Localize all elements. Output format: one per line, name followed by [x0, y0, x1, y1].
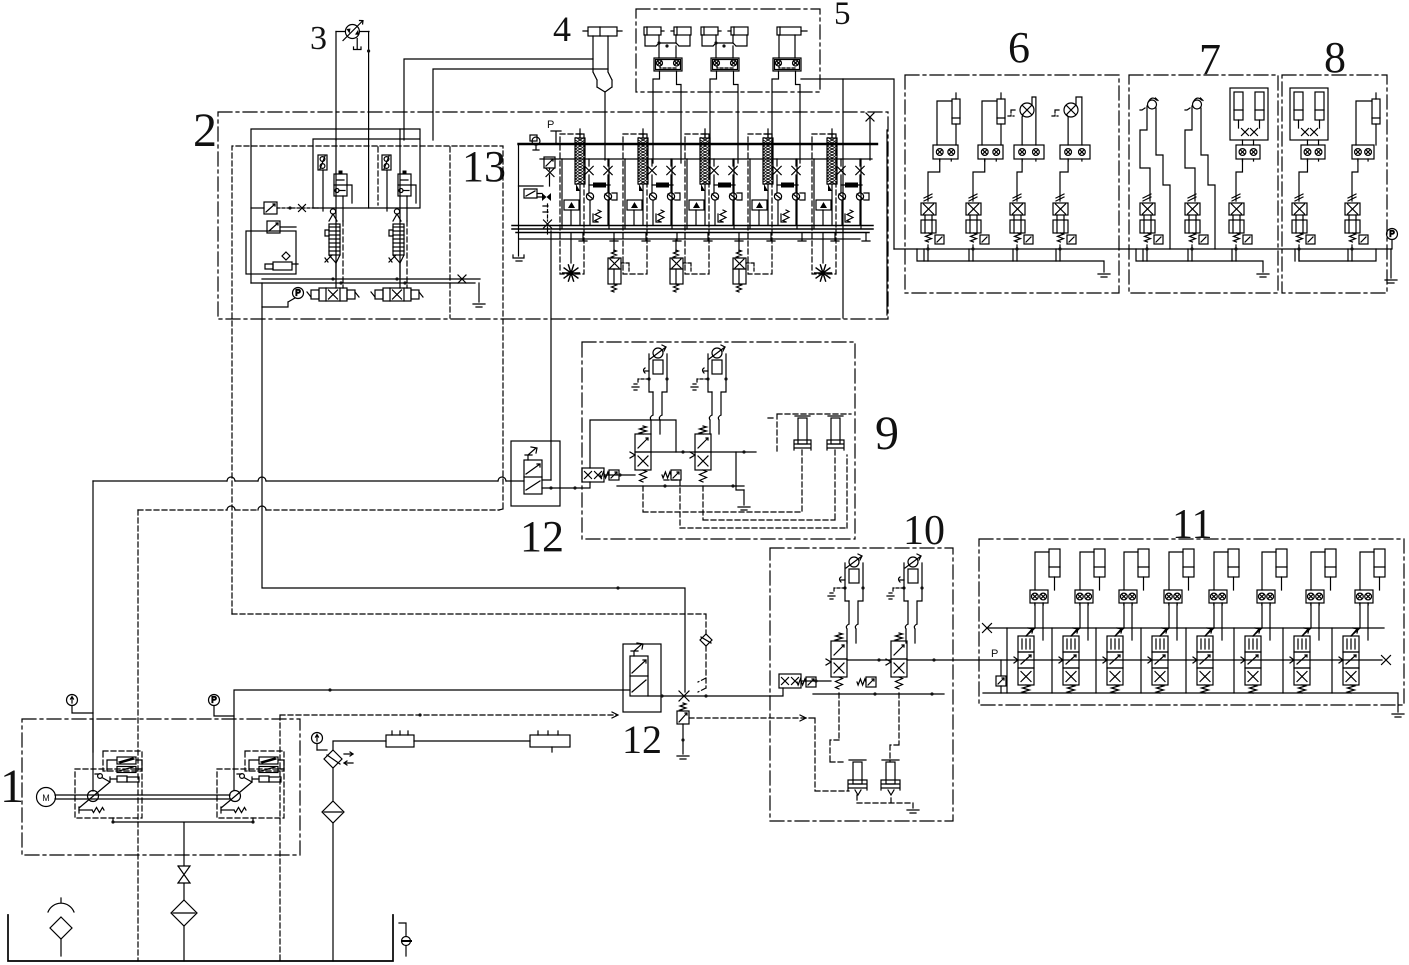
- relief below valve 12L: [677, 703, 689, 759]
- link wire to blocks 6-8: [843, 79, 894, 249]
- block11 top line: [987, 627, 1384, 629]
- box10 inlet throttle pair: [779, 674, 801, 688]
- block11 unit at 1084: [1052, 549, 1105, 693]
- valve bank P bus: [519, 143, 878, 145]
- block2 tank bus: [251, 279, 480, 283]
- svg-text:P: P: [1389, 230, 1394, 239]
- block11 P line: [953, 659, 1382, 661]
- box 10: [770, 548, 953, 821]
- pilot dashed line inside box 2: [378, 147, 450, 318]
- component 4 cylinder: [583, 27, 622, 160]
- damper 1: [386, 735, 414, 747]
- block2 inner frame: [251, 129, 420, 283]
- throttle pair box 9 inlet: [582, 468, 604, 482]
- bank section 1: [560, 129, 618, 274]
- box 5: [636, 9, 820, 92]
- box 9: [582, 342, 855, 539]
- pump 2: [217, 751, 284, 818]
- box 6: [905, 75, 1119, 293]
- wire from component 3 left: [335, 32, 337, 141]
- block7 pressure pickup at 1152: [1140, 98, 1170, 249]
- box10 cylinder cup 2: [881, 760, 900, 795]
- svg-text:P: P: [991, 648, 998, 660]
- pump unit risers: [336, 129, 400, 288]
- check filter diamond: [324, 750, 342, 768]
- block8 unit 1: [1290, 88, 1328, 261]
- wire block4 to block2 B: [433, 69, 608, 140]
- box9 spool valve 2: [690, 426, 711, 482]
- pump1 supply entering: [92, 719, 94, 791]
- relief valve A: [264, 202, 277, 214]
- block6 unit 2: [966, 93, 1005, 261]
- svg-text:3: 3: [310, 20, 327, 57]
- wire W6 dashed pump2 drain: [280, 715, 617, 961]
- box 1: [22, 719, 300, 855]
- bank section 2: [623, 129, 681, 274]
- block6 unit 1: [921, 93, 960, 261]
- svg-text:7: 7: [1199, 35, 1221, 84]
- svg-text:2: 2: [193, 104, 217, 157]
- box9 motor unit 2: [691, 345, 728, 434]
- box10 dashed lines: [830, 693, 845, 762]
- valve 12U right port wires: [542, 480, 590, 488]
- box 11: [979, 539, 1404, 705]
- valve bank tank bus: [512, 226, 873, 233]
- valve 12 upper manual valve: [524, 447, 542, 494]
- box9 relief 1: [609, 470, 619, 480]
- accumulator line: [333, 741, 530, 750]
- supply line through blocks 6-8: [894, 248, 1391, 250]
- box5 unit2 lines to bank section 3: [710, 71, 738, 163]
- svg-text:5: 5: [834, 0, 851, 32]
- wire from component 3 right: [368, 32, 370, 209]
- pump 1: [75, 751, 142, 818]
- svg-text:9: 9: [875, 407, 899, 460]
- suction strainer: [48, 898, 74, 912]
- box9 ground: [743, 490, 745, 505]
- block7 unit 3: [1229, 88, 1268, 261]
- block6 inner bus and ground: [917, 249, 1104, 272]
- box 2: [218, 112, 888, 319]
- box5 unit1 lines to bank section 2: [653, 71, 681, 163]
- box10 motor unit 2: [887, 554, 924, 643]
- svg-text:11: 11: [1172, 502, 1212, 548]
- block6 unit 3: [1008, 97, 1044, 261]
- bank right riser: [869, 117, 871, 160]
- svg-text:M: M: [42, 793, 50, 803]
- return filter: [171, 900, 197, 926]
- svg-text:6: 6: [1008, 23, 1030, 72]
- box5 cylinder unit 2: [701, 27, 748, 71]
- box10 motor unit 1: [828, 554, 865, 643]
- block11 unit at 1218: [1186, 549, 1239, 693]
- box9 motor unit 1: [632, 345, 669, 434]
- svg-text:10: 10: [903, 508, 945, 554]
- block11 unit at 1266: [1234, 549, 1287, 693]
- wire W4 dashed box13 to check: [232, 614, 706, 634]
- box10 relief 2: [866, 677, 876, 687]
- block11 unit at 1128: [1096, 549, 1149, 693]
- pump regulator assembly 2: [371, 155, 423, 301]
- pump suction lines: [113, 818, 253, 855]
- gauge P left: [209, 695, 220, 706]
- box10 spool valve 1: [826, 633, 847, 689]
- box10 spool valve 2: [886, 633, 907, 689]
- wire W5 pump2 to valve12 lower: [234, 690, 630, 790]
- block11 unit at 1315: [1283, 549, 1336, 693]
- gauge I left: [67, 695, 78, 706]
- shutoff valve under box1: [178, 855, 190, 900]
- box5 unit3 lines to bank section 4: [772, 71, 800, 163]
- block11 unit at 1364: [1332, 549, 1385, 693]
- box5 cylinder unit 1: [644, 27, 691, 71]
- box5 right link wire: [801, 79, 843, 318]
- box 13 dashed enclosure: [232, 146, 503, 614]
- svg-text:P: P: [295, 289, 300, 298]
- box9 accumulator cup 1: [794, 416, 811, 450]
- pump regulator assembly 1: [307, 155, 359, 301]
- P gauge right: [1387, 229, 1398, 240]
- block8 inner bus: [1299, 249, 1376, 261]
- tank: [8, 915, 393, 961]
- block11 unit at 1173: [1141, 549, 1194, 693]
- bank section 4 solenoid valve below bus: [733, 239, 754, 292]
- box5 cylinder unit 3: [773, 27, 807, 71]
- box9 connections: [604, 452, 756, 475]
- check valve on dashed drop: [700, 634, 712, 646]
- box10 cylinder cup 1: [848, 760, 867, 795]
- valve bank left column: [513, 135, 555, 261]
- svg-text:13: 13: [462, 142, 506, 191]
- block6 unit 4: [1052, 97, 1090, 261]
- block8 unit 2: [1345, 93, 1380, 261]
- filter column: [332, 768, 334, 800]
- drive shaft: [55, 795, 230, 799]
- valve 12L output line with shutoff: [648, 695, 770, 697]
- wire W3 bank tank to valve12 lower: [262, 283, 685, 692]
- box9 accumulator cup 2: [827, 416, 844, 450]
- bank section 5 tank-side star valve: [822, 233, 824, 263]
- svg-text:P: P: [211, 696, 216, 705]
- inner box B: [246, 231, 296, 274]
- block7 inner bus and ground: [1136, 249, 1263, 272]
- svg-text:12: 12: [622, 717, 662, 762]
- P gauge block2: [293, 288, 304, 299]
- box9 spool valve 1: [630, 426, 651, 482]
- damper: [273, 262, 292, 270]
- tank sensor: [399, 923, 406, 956]
- svg-text:P: P: [547, 119, 554, 131]
- bank section 2 solenoid valve below bus: [608, 239, 629, 292]
- dashed pilot to box10 cups: [689, 718, 849, 791]
- box9 relief 2: [671, 470, 681, 480]
- bank section 4: [748, 129, 806, 274]
- block7 unit 1: [1140, 194, 1163, 261]
- wire bank to valve 12 upper: [550, 231, 552, 480]
- box 12 lower: [623, 644, 661, 712]
- bank section 3: [685, 129, 743, 274]
- block7 unit 2: [1185, 194, 1208, 261]
- box9 dashed return lines: [643, 450, 802, 512]
- block7 pressure pickup at 1197: [1185, 98, 1215, 249]
- valve 12 lower manual valve: [630, 643, 648, 696]
- block11 unit at 1039: [1007, 549, 1060, 693]
- wire W1 pump1 supply to valve12 upper: [93, 480, 227, 482]
- svg-text:12: 12: [520, 512, 564, 561]
- wire W2 pilot dashed pump1 to box13: [138, 509, 227, 511]
- box 8: [1282, 75, 1387, 293]
- bank section 3 solenoid valve below bus: [670, 239, 691, 292]
- valve bank mid bus: [540, 158, 872, 160]
- block11 relief: [996, 676, 1006, 686]
- block11 bottom bus: [983, 693, 1398, 712]
- bank section 5: [812, 129, 870, 274]
- damper 2: [530, 735, 570, 747]
- svg-text:1: 1: [0, 760, 24, 813]
- svg-text:4: 4: [553, 9, 571, 49]
- box10 relief 1: [806, 677, 816, 687]
- gauge I right: [312, 733, 323, 744]
- box10 ground: [912, 803, 914, 808]
- box 12 upper: [511, 441, 560, 506]
- wire block4 to block2 A: [404, 59, 593, 140]
- relief valve B: [267, 221, 280, 233]
- motor M: [37, 788, 56, 807]
- bank section 1 tank-side star valve: [570, 233, 572, 263]
- component 3 variable pump: [336, 21, 369, 50]
- box 7: [1129, 75, 1278, 293]
